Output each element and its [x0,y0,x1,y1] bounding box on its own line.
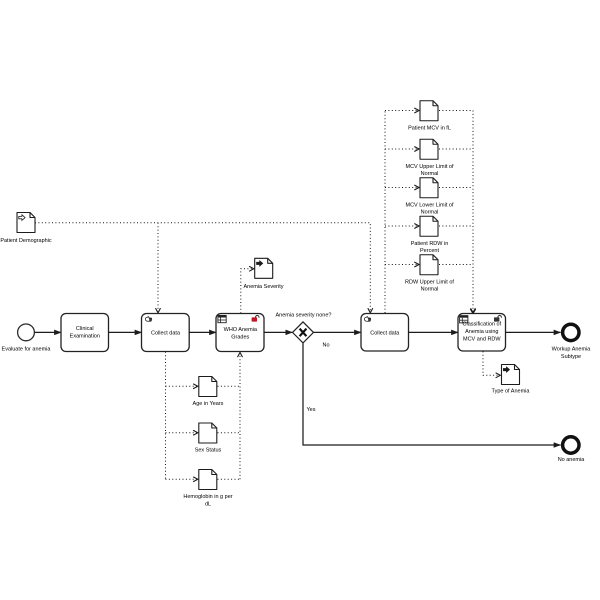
svg-text:Classification of: Classification of [463,322,502,328]
wire: gateway Yes branch to end event No anemia [303,343,561,445]
svg-text:Anemia using: Anemia using [465,329,498,335]
wire: gateway No branch to Collect data 2 [314,331,361,333]
data object: Sex Status [195,423,222,454]
data association: Collect data 2 to MCV Upper Limit [385,148,419,150]
data association: Sex Status to WHO Anemia Grades [218,432,241,434]
svg-text:Sex Status: Sex Status [195,448,222,454]
svg-text:WHO Anemia: WHO Anemia [224,327,258,333]
end event: No anemia [558,437,586,463]
wire: WHO Anemia Grades to gateway [264,331,292,333]
svg-text:MCV Upper Limit of: MCV Upper Limit of [406,164,454,170]
task: Clinical Examination [61,314,109,352]
svg-text:Anemia Severity: Anemia Severity [243,284,283,290]
data association: Collect data 2 to MCV Lower Limit [385,187,419,189]
wire: Clinical Examination to Collect data 1 [109,331,142,333]
svg-text:RDW Upper Limit of: RDW Upper Limit of [405,279,454,285]
svg-text:No: No [323,342,330,348]
data association: Patient Demographic to Collect data 2 [35,223,370,313]
data association: MCV Lower Limit to Classification [439,187,473,189]
svg-text:Grades: Grades [231,335,249,341]
data object: Patient RDW in Percent [411,216,449,254]
data association: Collect data 1 to Hemoglobin [166,478,198,480]
data object: Anemia Severity (output) [243,258,283,290]
data association: Collect data 1 to Sex Status [166,432,198,434]
data object: Patient Demographic (input) [0,213,52,245]
svg-text:Clinical: Clinical [76,326,94,332]
svg-text:Patient Demographic: Patient Demographic [0,238,52,244]
data association: Collect data 2 to Patient RDW [385,225,419,227]
svg-text:Anemia severity none?: Anemia severity none? [276,313,332,319]
data association: Collect data 1 trunk [165,352,167,479]
data association: Collect data 2 to RDW Upper Limit [385,264,419,266]
task: Classification of Anemia using MCV and RDW [458,314,506,352]
data association: MCV Upper Limit to Classification [439,148,473,150]
svg-text:dL: dL [205,501,211,507]
wire: start to Clinical Examination [35,331,62,333]
svg-text:Patient MCV in fL: Patient MCV in fL [408,125,451,131]
data association: Age in Years to WHO Anemia Grades [218,385,241,387]
data association: Hemoglobin to WHO Anemia Grades [218,478,241,480]
data object: Type of Anemia (output) [492,365,531,395]
wire: Collect data 2 to Classification [409,331,459,333]
data association: docs to WHO trunk [239,352,241,479]
data association: Collect data 2 trunk [384,111,386,314]
svg-text:Evaluate for anemia: Evaluate for anemia [2,346,52,352]
data object: RDW Upper Limit of Normal [405,255,454,293]
data object: MCV Lower Limit of Normal [406,178,454,216]
data association: Patient RDW to Classification [439,225,473,227]
data association: Patient Demographic to Collect data 1 [157,223,159,313]
svg-text:Collect data: Collect data [151,330,181,336]
gateway: Anemia severity none? (exclusive) [276,313,332,343]
end event: Workup Anemia Subtype [552,324,592,360]
svg-text:Type of Anemia: Type of Anemia [492,389,531,395]
svg-text:MCV Lower Limit of: MCV Lower Limit of [406,202,454,208]
svg-text:Hemoglobin in g per: Hemoglobin in g per [183,494,232,500]
wire: Classification to end event Workup Anemia Subtype [506,331,561,333]
svg-text:Examination: Examination [70,333,100,339]
start event: Evaluate for anemia [2,324,52,352]
svg-text:Workup Anemia: Workup Anemia [552,346,592,352]
data object: Hemoglobin in g per dL [183,470,232,508]
svg-text:MCV and RDW: MCV and RDW [463,336,501,342]
svg-text:Collect data: Collect data [370,330,400,336]
svg-text:Percent: Percent [420,248,439,254]
svg-text:Age in Years: Age in Years [193,401,224,407]
svg-text:Yes: Yes [307,407,316,413]
data association: docs to Classification trunk [472,111,474,313]
task: Collect data (second) [361,314,409,352]
data association: WHO Anemia Grades to Anemia Severity [241,269,254,313]
data object: MCV Upper Limit of Normal [406,139,454,177]
data association: Patient MCV to Classification [439,110,473,112]
data association: Classification to Type of Anemia [483,351,500,375]
svg-text:Normal: Normal [421,210,439,216]
data association: Collect data 1 to Age in Years [166,385,198,387]
svg-text:Normal: Normal [421,287,439,293]
svg-text:Subtype: Subtype [561,354,581,360]
task: Collect data (first) [142,314,190,352]
wire: Collect data 1 to WHO Anemia Grades [189,331,216,333]
data object: Age in Years [193,377,224,408]
data object: Patient MCV in fL [408,101,451,132]
svg-text:No anemia: No anemia [558,457,586,463]
data association: RDW Upper Limit to Classification [439,264,473,266]
svg-text:Patient RDW in: Patient RDW in [411,241,449,247]
task: WHO Anemia Grades [216,314,264,352]
svg-text:Normal: Normal [421,171,439,177]
data association: Collect data 2 to Patient MCV [385,110,419,112]
